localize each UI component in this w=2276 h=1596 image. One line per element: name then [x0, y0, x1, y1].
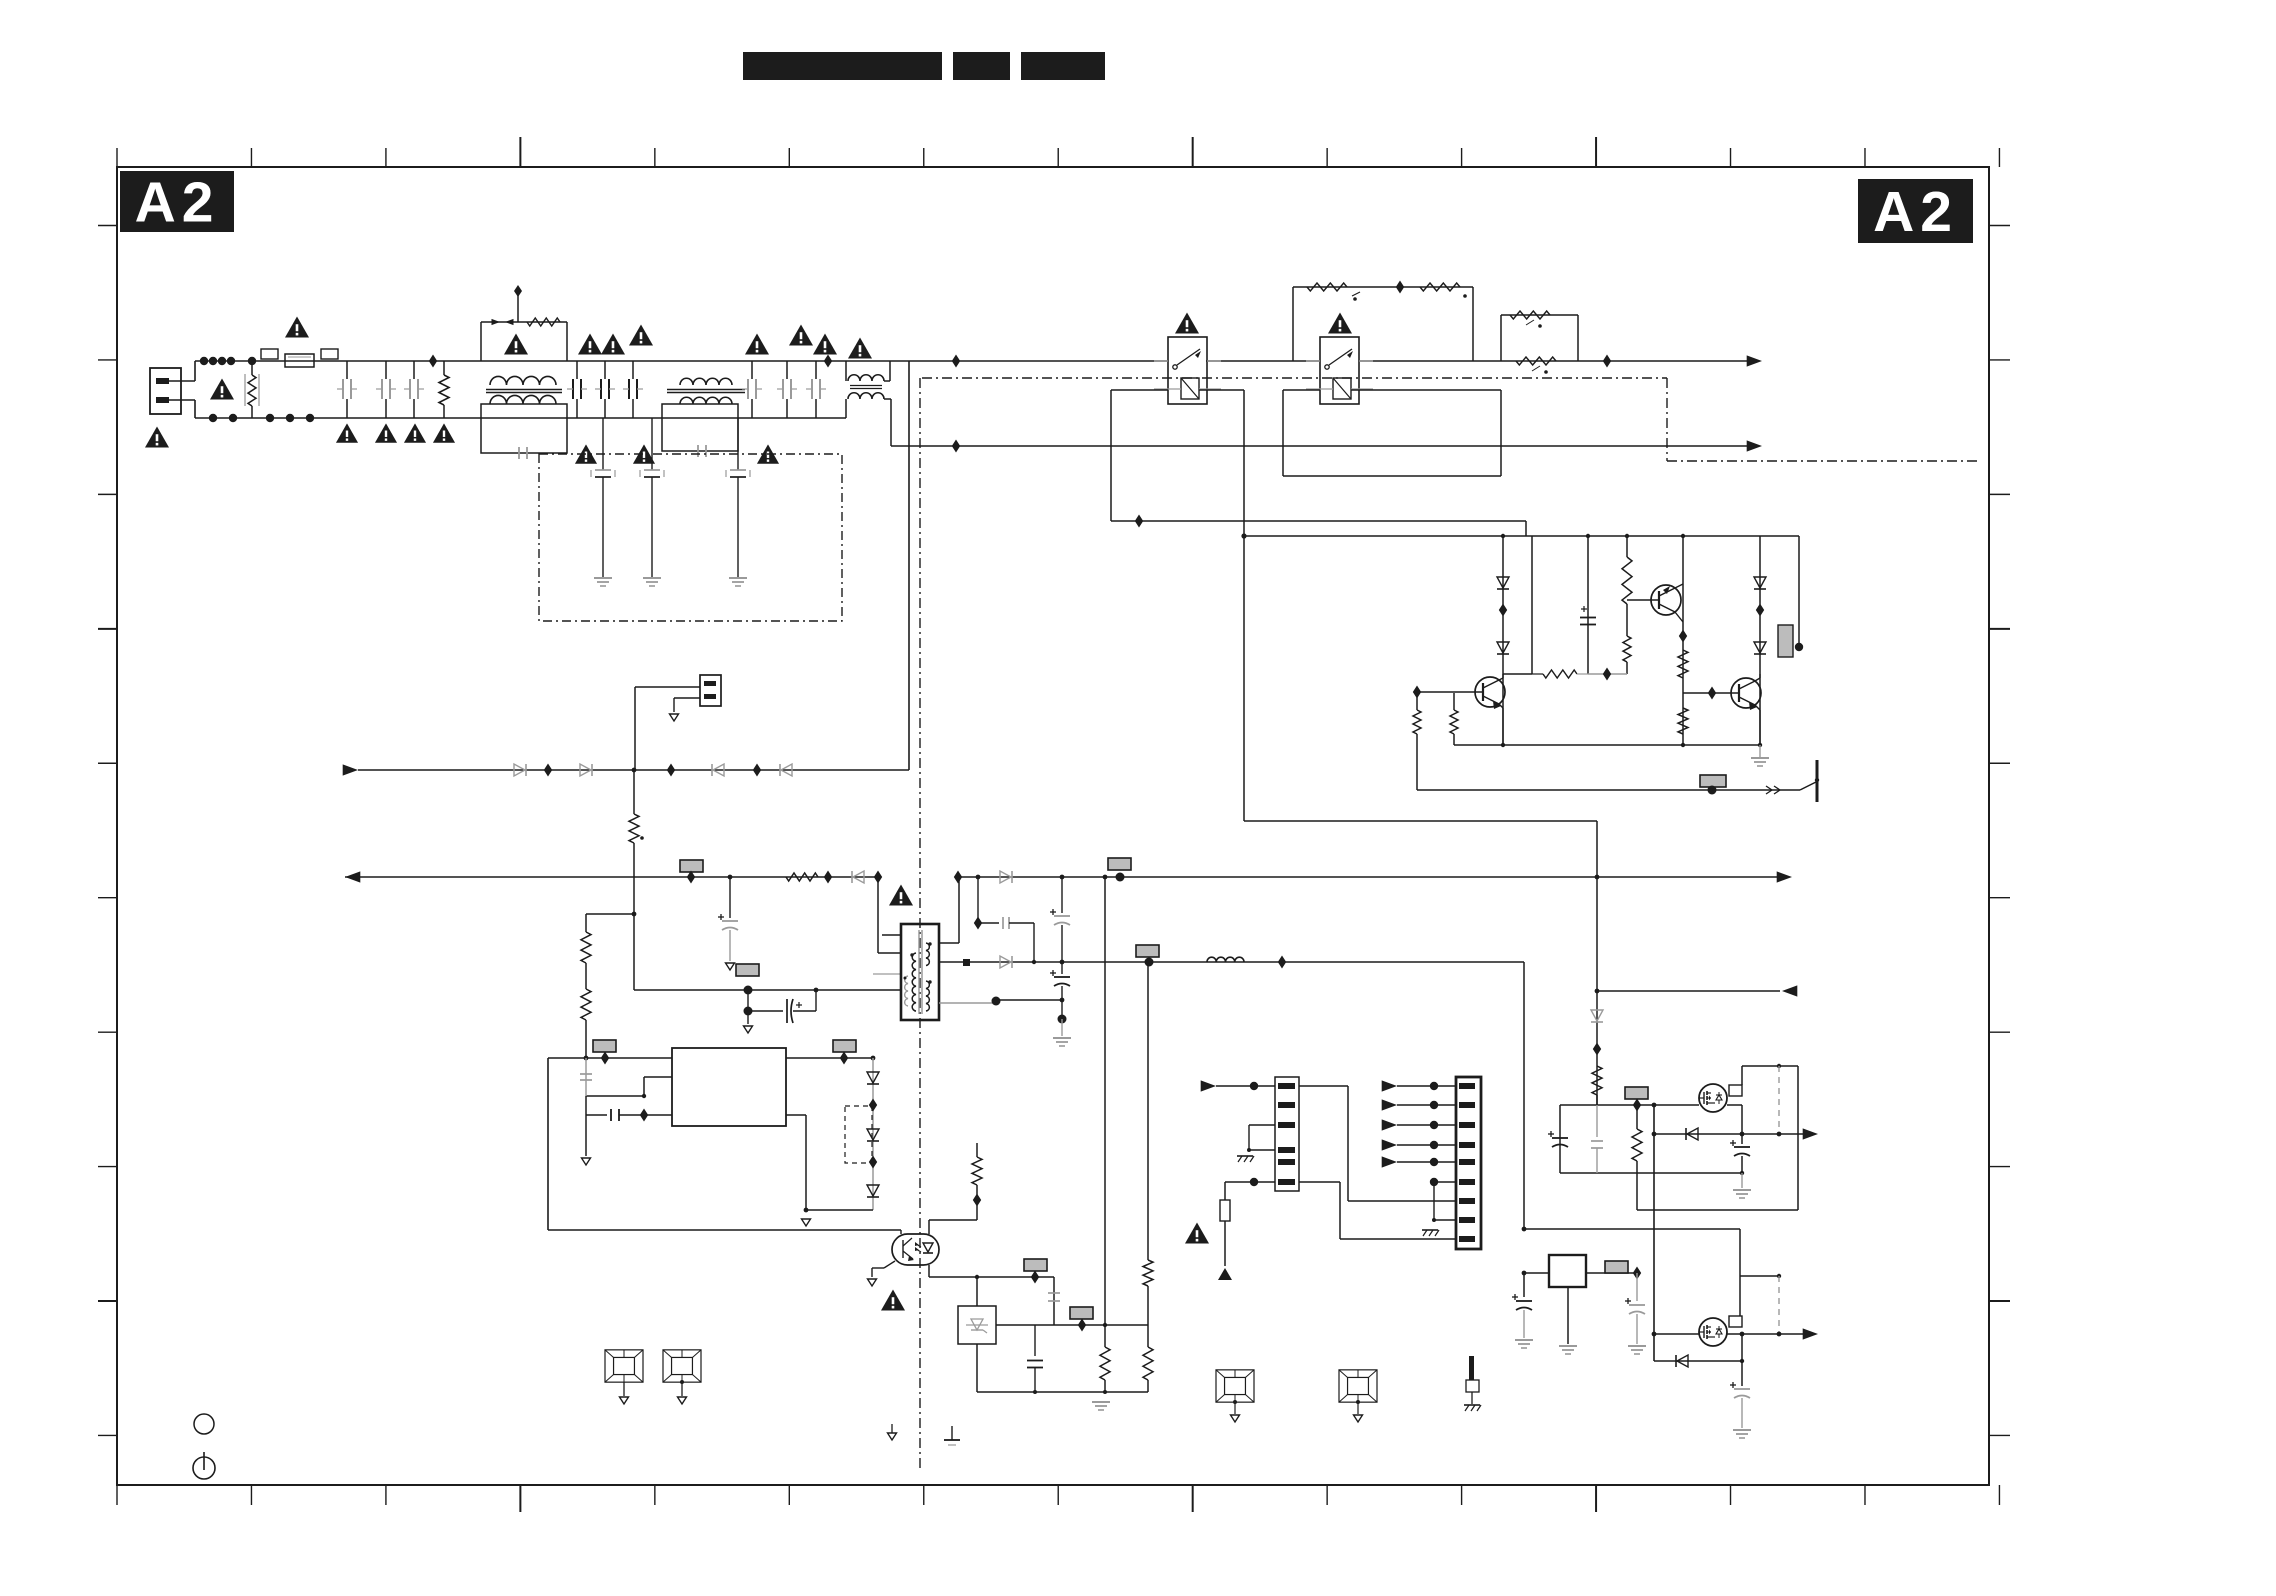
svg-text:A2: A2 — [1873, 180, 1958, 244]
svg-text:A2: A2 — [135, 171, 220, 235]
